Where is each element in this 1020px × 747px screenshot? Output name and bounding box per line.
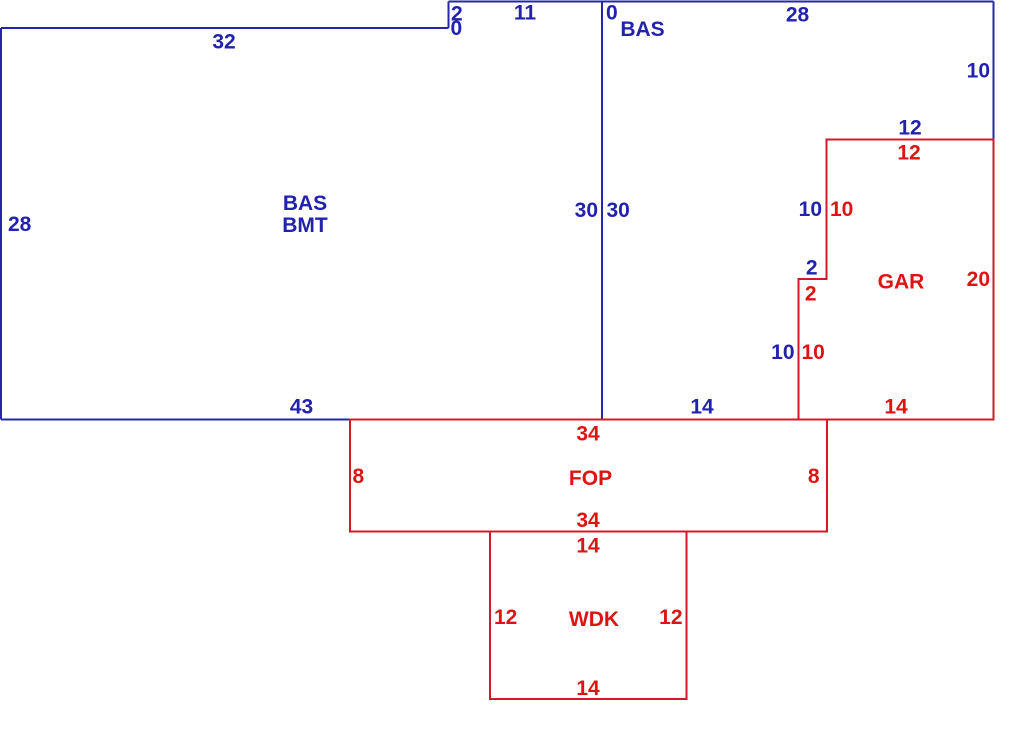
wall BMT step vertical (2 ft) (448, 2, 450, 29)
svg-text:14: 14 (884, 396, 908, 419)
svg-text:30: 30 (607, 199, 630, 222)
svg-text:10: 10 (771, 341, 794, 364)
svg-text:20: 20 (967, 268, 990, 291)
svg-text:28: 28 (8, 213, 32, 236)
svg-text:11: 11 (514, 2, 537, 25)
wall BMT left edge (28 ft) (0, 28, 2, 420)
svg-text:10: 10 (967, 60, 990, 83)
svg-text:BAS: BAS (620, 18, 664, 41)
svg-text:12: 12 (659, 606, 682, 629)
svg-text:WDK: WDK (569, 608, 619, 631)
wall FOP outline (8 x 34) (350, 420, 827, 532)
svg-text:FOP: FOP (569, 467, 612, 490)
svg-text:2: 2 (806, 257, 818, 280)
svg-text:8: 8 (808, 465, 820, 488)
svg-text:28: 28 (786, 4, 810, 27)
svg-text:43: 43 (290, 396, 313, 419)
svg-text:30: 30 (575, 199, 598, 222)
svg-text:2: 2 (805, 283, 817, 306)
svg-text:BMT: BMT (282, 214, 328, 237)
wall GAR outline (799, 140, 994, 420)
svg-text:8: 8 (353, 465, 365, 488)
svg-text:32: 32 (212, 31, 235, 54)
svg-text:14: 14 (576, 677, 600, 700)
wall BAS right edge (10 ft) (993, 2, 995, 140)
wall WDK outline (12 x 14) (490, 532, 687, 700)
svg-text:BAS: BAS (283, 192, 327, 215)
svg-text:GAR: GAR (878, 271, 925, 294)
svg-text:14: 14 (690, 396, 714, 419)
svg-text:10: 10 (802, 341, 825, 364)
svg-text:10: 10 (830, 198, 853, 221)
wall BMT top edge (32 ft) (1, 27, 449, 29)
svg-text:0: 0 (606, 2, 618, 25)
svg-text:10: 10 (799, 198, 822, 221)
svg-text:0: 0 (451, 17, 463, 40)
wall divider BMT/BAS (30 ft) (601, 2, 603, 420)
svg-text:12: 12 (898, 117, 921, 140)
svg-text:34: 34 (576, 509, 600, 532)
svg-text:34: 34 (576, 423, 600, 446)
svg-text:14: 14 (576, 535, 600, 558)
wall top edge from step across BAS (11 ft + 28 ft) (449, 1, 994, 3)
wall bottom edge blue (43 ft and 14 ft) (1, 419, 799, 421)
svg-text:12: 12 (494, 606, 517, 629)
svg-text:12: 12 (897, 142, 920, 165)
